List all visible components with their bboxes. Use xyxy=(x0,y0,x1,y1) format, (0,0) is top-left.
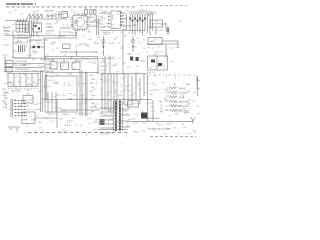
svg-text:4.7K: 4.7K xyxy=(107,64,110,66)
svg-text:IC201: IC201 xyxy=(36,42,40,44)
wire xyxy=(109,56,111,74)
svg-text:IC201: IC201 xyxy=(58,108,62,110)
svg-text:TP2: TP2 xyxy=(122,22,125,24)
svg-text:56K D301: 56K D301 xyxy=(64,125,72,127)
svg-text:AC120V 60Hz: AC120V 60Hz xyxy=(148,117,159,120)
svg-text:Q502: Q502 xyxy=(68,98,72,100)
svg-text:Q502: Q502 xyxy=(38,91,42,93)
wire xyxy=(46,74,48,100)
svg-text:VR2: VR2 xyxy=(94,105,97,107)
svg-text:EQ7: EQ7 xyxy=(50,121,53,123)
wire xyxy=(196,76,198,86)
svg-text:TP2: TP2 xyxy=(44,101,47,103)
svg-text:10K: 10K xyxy=(26,90,29,92)
svg-text:0.022: 0.022 xyxy=(24,71,28,73)
wire xyxy=(45,37,76,39)
svg-text:100u: 100u xyxy=(161,26,165,28)
svg-text:VR2: VR2 xyxy=(56,75,59,77)
svg-text:TP2: TP2 xyxy=(111,25,114,27)
svg-text:EQ7: EQ7 xyxy=(100,79,103,81)
svg-text:4.7K: 4.7K xyxy=(62,18,65,20)
svg-text:EQ7: EQ7 xyxy=(156,66,159,68)
svg-text:2SC1815: 2SC1815 xyxy=(3,92,9,94)
wire xyxy=(4,56,6,72)
svg-text:100u: 100u xyxy=(93,89,97,91)
wire xyxy=(126,14,128,30)
wire xyxy=(4,63,44,65)
svg-text:8: 8 xyxy=(16,78,17,80)
svg-text:330: 330 xyxy=(143,48,146,50)
wire xyxy=(4,67,44,69)
capacitor C30 xyxy=(130,57,133,61)
svg-text:L102: L102 xyxy=(12,103,16,105)
svg-text:330: 330 xyxy=(51,49,54,51)
transformer T2 in shield box xyxy=(13,38,30,59)
wire xyxy=(27,18,67,20)
svg-text:EQ7 L102: EQ7 L102 xyxy=(148,72,155,74)
svg-text:6.8: 6.8 xyxy=(91,95,93,97)
svg-text:IC201: IC201 xyxy=(186,100,190,102)
header separator dashed line xyxy=(36,6,136,8)
svg-text:TP2: TP2 xyxy=(113,114,116,116)
svg-text:56K: 56K xyxy=(153,85,156,87)
wire xyxy=(13,57,46,59)
svg-text:100u: 100u xyxy=(120,91,124,93)
svg-text:100u: 100u xyxy=(6,109,10,111)
labels xyxy=(46,24,54,33)
resistor R85 xyxy=(170,109,177,111)
wire xyxy=(96,15,98,35)
crystal X1 xyxy=(85,10,88,15)
svg-text:IC201: IC201 xyxy=(3,107,7,109)
svg-text:0.022: 0.022 xyxy=(112,27,116,29)
svg-text:2SC1815: 2SC1815 xyxy=(149,90,156,92)
svg-text:e: e xyxy=(16,83,17,85)
svg-text:47u 6.8: 47u 6.8 xyxy=(179,97,184,99)
svg-text:Q502: Q502 xyxy=(97,36,101,38)
svg-text:D301: D301 xyxy=(32,59,36,61)
svg-text:R401: R401 xyxy=(175,114,179,116)
svg-text:D301: D301 xyxy=(184,113,188,115)
svg-text:4.7K: 4.7K xyxy=(124,111,127,113)
svg-text:C205: C205 xyxy=(84,22,88,24)
svg-text:L102: L102 xyxy=(148,121,152,123)
component column labels xyxy=(90,75,97,113)
resistor R82 xyxy=(170,96,177,98)
svg-text:330: 330 xyxy=(54,103,57,105)
box J3 xyxy=(6,68,12,73)
svg-text:0.022: 0.022 xyxy=(3,45,7,47)
svg-text:R401: R401 xyxy=(70,10,74,12)
box PH1 xyxy=(22,112,35,124)
svg-text:TP2: TP2 xyxy=(176,112,179,114)
wire xyxy=(12,30,14,37)
svg-text:EQ7: EQ7 xyxy=(62,129,65,131)
wire xyxy=(100,73,148,75)
svg-text:VR2: VR2 xyxy=(156,30,159,32)
svg-text:56K: 56K xyxy=(136,66,139,68)
svg-text:TUNER: TUNER xyxy=(47,11,54,13)
svg-text:IC201: IC201 xyxy=(38,128,42,130)
wire xyxy=(60,51,98,53)
svg-text:1/2W: 1/2W xyxy=(54,23,58,25)
wire xyxy=(44,37,46,58)
svg-text:330: 330 xyxy=(13,99,16,101)
svg-text:C205: C205 xyxy=(186,83,190,85)
svg-text:TP2: TP2 xyxy=(33,81,36,83)
svg-text:330: 330 xyxy=(72,118,75,120)
svg-text:IC201: IC201 xyxy=(183,127,187,129)
resistor R83 xyxy=(170,100,177,102)
svg-text:4.7K: 4.7K xyxy=(58,131,61,133)
svg-text:C205: C205 xyxy=(100,75,104,77)
svg-text:100u: 100u xyxy=(77,104,81,106)
diode D3 xyxy=(38,46,40,48)
svg-text:8: 8 xyxy=(22,78,23,80)
svg-text:VR2: VR2 xyxy=(73,63,76,65)
svg-text:Q502: Q502 xyxy=(149,28,153,30)
wires T1 taps xyxy=(100,108,130,128)
svg-text:L102: L102 xyxy=(174,94,178,96)
relay RY1 coil xyxy=(141,113,148,119)
svg-text:100u: 100u xyxy=(16,89,20,91)
svg-text:0.022: 0.022 xyxy=(101,122,105,124)
svg-text:0.022: 0.022 xyxy=(149,94,153,96)
svg-text:6.8: 6.8 xyxy=(51,101,53,103)
connector CN5 pin rows xyxy=(11,99,25,117)
svg-text:6.8: 6.8 xyxy=(188,104,190,106)
svg-text:VR2: VR2 xyxy=(38,109,41,111)
svg-text:R401: R401 xyxy=(102,60,106,62)
svg-text:6.8: 6.8 xyxy=(97,127,99,129)
svg-text:IC201: IC201 xyxy=(24,30,28,32)
svg-text:10K: 10K xyxy=(74,23,77,25)
svg-text:1/2W: 1/2W xyxy=(165,109,169,111)
box POWER AMP module xyxy=(148,56,168,70)
svg-text:330: 330 xyxy=(81,104,84,106)
wire xyxy=(75,30,77,38)
svg-text:Q502: Q502 xyxy=(102,42,106,44)
svg-text:10K: 10K xyxy=(73,12,76,14)
dashed line xyxy=(150,135,196,137)
svg-text:IC201: IC201 xyxy=(17,28,21,30)
capacitor C9 xyxy=(160,23,166,25)
svg-text:D301: D301 xyxy=(57,12,61,14)
svg-text:10K: 10K xyxy=(137,54,140,56)
svg-text:EQ7: EQ7 xyxy=(28,64,31,66)
wire xyxy=(147,43,178,45)
svg-text:47u: 47u xyxy=(158,62,161,64)
svg-text:2SC1815: 2SC1815 xyxy=(146,103,153,105)
svg-text:IC201: IC201 xyxy=(90,17,94,19)
capacitor C1 xyxy=(58,13,60,18)
svg-text:0.022: 0.022 xyxy=(38,122,42,124)
svg-text:0.022: 0.022 xyxy=(34,84,38,86)
wire xyxy=(5,35,76,37)
svg-text:1/2W: 1/2W xyxy=(84,98,88,100)
svg-text:L102: L102 xyxy=(134,25,138,27)
input net labels xyxy=(3,28,10,36)
svg-text:EQ7: EQ7 xyxy=(100,10,103,12)
wire xyxy=(85,14,87,15)
misc wiring texture xyxy=(3,10,202,137)
IC U2 xyxy=(111,11,121,29)
svg-text:EQ7: EQ7 xyxy=(3,95,6,97)
svg-text:D301 EQ7: D301 EQ7 xyxy=(179,88,187,90)
svg-text:1/2W: 1/2W xyxy=(192,101,196,103)
svg-text:C205 VR2 Q502: C205 VR2 Q502 xyxy=(15,61,27,63)
svg-text:TP2: TP2 xyxy=(87,46,90,48)
svg-text:C205: C205 xyxy=(163,98,167,100)
svg-text:TP2: TP2 xyxy=(144,93,147,95)
box VR5 xyxy=(23,96,33,104)
svg-text:C205: C205 xyxy=(32,22,36,24)
svg-text:47u: 47u xyxy=(137,14,140,16)
svg-text:D301: D301 xyxy=(104,32,108,34)
wire xyxy=(5,20,27,22)
svg-text:10K: 10K xyxy=(37,37,40,39)
svg-text:L102 KTA1023 6.8: L102 KTA1023 6.8 xyxy=(15,68,29,71)
wire xyxy=(59,31,61,39)
svg-text:1/2W: 1/2W xyxy=(91,79,95,81)
svg-text:6.8: 6.8 xyxy=(117,71,119,73)
svg-text:1/2W: 1/2W xyxy=(199,123,201,125)
node dot xyxy=(108,12,109,13)
svg-text:56K: 56K xyxy=(158,23,161,25)
svg-text:D301: D301 xyxy=(22,24,26,26)
node dot xyxy=(108,23,109,24)
svg-text:330: 330 xyxy=(140,43,143,45)
svg-text:6.8: 6.8 xyxy=(152,48,154,50)
svg-text:100u: 100u xyxy=(185,92,189,94)
wire xyxy=(47,92,49,112)
box FL2 xyxy=(50,62,57,70)
wire xyxy=(30,46,44,48)
svg-text:EQ7: EQ7 xyxy=(12,24,15,26)
svg-text:D301: D301 xyxy=(78,45,82,47)
svg-text:R401: R401 xyxy=(56,21,60,23)
svg-text:1/2W: 1/2W xyxy=(101,52,105,54)
wire xyxy=(97,57,99,75)
svg-text:T: T xyxy=(161,106,162,108)
svg-text:100u: 100u xyxy=(88,39,92,41)
box SW1 xyxy=(151,20,163,27)
wire xyxy=(76,50,78,57)
svg-text:IC201: IC201 xyxy=(8,12,12,14)
svg-text:0.022: 0.022 xyxy=(25,101,29,103)
subtitle note xyxy=(6,6,35,8)
svg-text:R401: R401 xyxy=(62,95,66,97)
transistor Q1 xyxy=(104,11,107,14)
box REG1 xyxy=(61,12,68,18)
svg-text:56K: 56K xyxy=(131,33,134,35)
svg-text:330: 330 xyxy=(26,106,29,108)
wire xyxy=(41,70,43,112)
svg-text:10K: 10K xyxy=(81,15,84,17)
wire xyxy=(4,71,44,73)
box FL3 xyxy=(61,62,69,70)
svg-text:VR2: VR2 xyxy=(84,103,87,105)
svg-text:100u: 100u xyxy=(198,81,200,83)
svg-text:1/2W: 1/2W xyxy=(49,115,53,117)
wire xyxy=(155,27,157,34)
wire xyxy=(40,70,42,112)
wire xyxy=(104,56,106,74)
ground xyxy=(14,127,20,131)
wire xyxy=(52,59,54,62)
svg-text:IC201: IC201 xyxy=(54,69,58,71)
svg-text:TP2: TP2 xyxy=(5,75,8,77)
svg-text:2SC1815: 2SC1815 xyxy=(155,52,161,54)
svg-text:L102: L102 xyxy=(133,93,137,95)
svg-text:R401: R401 xyxy=(123,13,127,15)
wire xyxy=(162,40,178,42)
capacitor C4 xyxy=(94,10,97,15)
svg-text:56K: 56K xyxy=(24,132,27,134)
transistor Q4 xyxy=(131,39,134,42)
svg-text:D301: D301 xyxy=(92,11,96,13)
wire xyxy=(90,25,99,27)
svg-text:R401: R401 xyxy=(154,54,158,56)
svg-text:L102: L102 xyxy=(114,100,118,102)
resistor R81 xyxy=(170,91,177,93)
node dot xyxy=(108,19,109,20)
svg-text:47u: 47u xyxy=(82,36,85,38)
svg-text:0.022: 0.022 xyxy=(36,23,40,25)
box FL4 xyxy=(72,62,80,70)
net labels column xyxy=(3,89,8,109)
svg-text:R401: R401 xyxy=(54,14,58,16)
svg-text:330: 330 xyxy=(134,47,137,49)
svg-text:47u: 47u xyxy=(95,120,98,122)
svg-text:6.8 6.8: 6.8 6.8 xyxy=(32,51,37,53)
svg-text:330: 330 xyxy=(23,74,26,76)
svg-text:TP2: TP2 xyxy=(149,68,152,70)
svg-text:6.8: 6.8 xyxy=(157,128,159,130)
svg-text:L102: L102 xyxy=(114,130,118,132)
dashed line xyxy=(148,74,198,76)
svg-text:VR2 4.7K: VR2 4.7K xyxy=(48,80,56,82)
svg-text:D301: D301 xyxy=(157,46,161,48)
diode D2 xyxy=(33,46,35,48)
svg-text:IC201: IC201 xyxy=(128,91,132,93)
switch matrix S1 xyxy=(16,22,29,33)
svg-text:6.8 330: 6.8 330 xyxy=(46,24,51,26)
svg-text:100u: 100u xyxy=(47,86,51,88)
svg-text:R401: R401 xyxy=(71,25,75,27)
svg-text:L102: L102 xyxy=(154,75,158,77)
svg-text:C205 6.8: C205 6.8 xyxy=(3,34,10,36)
svg-text:C205: C205 xyxy=(8,26,12,28)
svg-text:VR2: VR2 xyxy=(196,106,199,108)
resistor R9 xyxy=(167,26,169,35)
svg-text:CF: CF xyxy=(51,65,53,67)
svg-text:47u 10K: 47u 10K xyxy=(100,62,107,64)
resistor R80 xyxy=(170,87,177,89)
box RY2 xyxy=(128,101,139,107)
svg-text:VR2: VR2 xyxy=(31,98,34,100)
svg-text:4.7K 0.022: 4.7K 0.022 xyxy=(174,110,182,112)
svg-text:0.022: 0.022 xyxy=(170,61,174,63)
svg-text:1/2W: 1/2W xyxy=(96,23,100,25)
svg-text:6.8: 6.8 xyxy=(4,39,6,41)
svg-text:56K: 56K xyxy=(171,122,174,124)
svg-text:47u: 47u xyxy=(198,89,200,91)
svg-text:IC201: IC201 xyxy=(22,49,26,51)
svg-text:56K: 56K xyxy=(33,120,36,122)
svg-text:6.8: 6.8 xyxy=(16,76,18,78)
svg-text:EQ7: EQ7 xyxy=(176,91,179,93)
svg-text:8: 8 xyxy=(34,78,35,80)
svg-text:1/2W: 1/2W xyxy=(56,95,60,97)
svg-text:VR2: VR2 xyxy=(11,84,14,86)
svg-text:100u: 100u xyxy=(78,76,82,78)
svg-text:L102: L102 xyxy=(75,113,79,115)
svg-text:L102: L102 xyxy=(168,115,172,117)
svg-text:VR2: VR2 xyxy=(3,89,6,91)
svg-text:C205: C205 xyxy=(114,64,118,66)
svg-text:L102: L102 xyxy=(17,113,21,115)
svg-text:56K: 56K xyxy=(14,63,17,65)
svg-text:L102: L102 xyxy=(66,25,70,27)
svg-text:IC201: IC201 xyxy=(132,60,136,62)
svg-text:2SC1815: 2SC1815 xyxy=(53,83,59,85)
svg-text:56K: 56K xyxy=(147,47,150,49)
svg-text:EQ7: EQ7 xyxy=(128,85,131,87)
svg-text:56K: 56K xyxy=(22,65,25,67)
box J2 xyxy=(6,61,13,67)
svg-text:IC201: IC201 xyxy=(32,25,36,27)
wire xyxy=(44,74,46,100)
wire xyxy=(86,72,88,116)
svg-text:TP2: TP2 xyxy=(41,43,44,45)
dashed line xyxy=(28,132,130,134)
transistor Q3 xyxy=(102,39,105,42)
svg-text:100u: 100u xyxy=(4,55,8,57)
svg-text:C205: C205 xyxy=(164,100,168,102)
svg-text:IC201: IC201 xyxy=(142,123,146,125)
wire xyxy=(45,58,98,60)
svg-text:330: 330 xyxy=(67,16,70,18)
svg-text:47u: 47u xyxy=(126,114,129,116)
svg-text:47u: 47u xyxy=(156,123,159,125)
svg-text:EQ7: EQ7 xyxy=(36,115,39,117)
svg-text:D301: D301 xyxy=(140,99,144,101)
svg-text:VR2: VR2 xyxy=(122,99,125,101)
svg-text:EQ7: EQ7 xyxy=(158,100,161,102)
svg-text:47u: 47u xyxy=(81,83,84,85)
svg-text:56K: 56K xyxy=(193,130,196,132)
svg-text:2SC1815: 2SC1815 xyxy=(38,65,44,67)
svg-text:56K: 56K xyxy=(175,102,178,104)
svg-text:2SC1815: 2SC1815 xyxy=(151,13,157,15)
wire xyxy=(79,70,81,116)
coil L1 antenna filter xyxy=(27,14,56,19)
svg-text:47u: 47u xyxy=(80,125,83,127)
svg-text:SCHEMATIC DIAGRAM - 1: SCHEMATIC DIAGRAM - 1 xyxy=(6,3,37,6)
svg-text:EQ7: EQ7 xyxy=(132,104,135,106)
svg-text:C205: C205 xyxy=(4,98,8,100)
svg-text:330: 330 xyxy=(121,123,124,125)
svg-text:S: S xyxy=(161,112,162,114)
svg-text:EQ7: EQ7 xyxy=(90,75,93,77)
resistor R84 xyxy=(170,105,177,107)
box D-BRIDGE xyxy=(100,119,105,125)
svg-text:4.7K: 4.7K xyxy=(11,57,14,59)
svg-text:KTA1023: KTA1023 xyxy=(62,113,69,116)
svg-text:10K: 10K xyxy=(64,55,67,57)
bus wires xyxy=(124,74,144,108)
